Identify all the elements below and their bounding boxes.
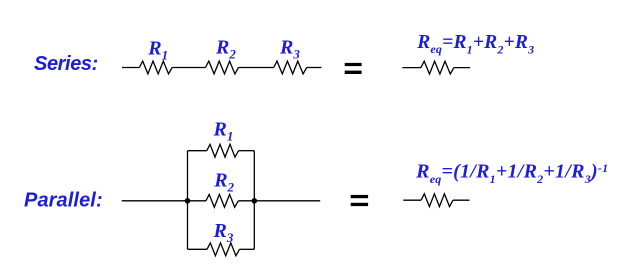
junction node (right) <box>252 198 258 204</box>
wire: bottom rail right segment <box>240 248 255 250</box>
svg-text:R1: R1 <box>147 38 168 63</box>
wire: parallel left lead <box>122 200 188 202</box>
resistor Req (series equivalent) <box>421 61 454 74</box>
wire: series between R2 and R3 <box>239 67 274 69</box>
svg-text:R2: R2 <box>215 37 236 62</box>
svg-text:R1: R1 <box>213 119 234 144</box>
wire: right vertical bus <box>253 151 255 250</box>
wire: parallel Req left lead <box>403 199 421 201</box>
wire: bottom rail left segment <box>188 248 208 250</box>
svg-text:Req=(1/R1+1/R2+1/R3)-1: Req=(1/R1+1/R2+1/R3)-1 <box>415 160 608 186</box>
wire: series Req left lead <box>402 67 421 69</box>
wire: series right lead <box>307 67 322 69</box>
equals sign (series row) <box>345 63 362 74</box>
wire: series left lead <box>122 67 139 69</box>
wire: parallel right lead <box>254 200 320 202</box>
svg-text:Parallel:: Parallel: <box>24 190 103 212</box>
wire: series between R1 and R2 <box>172 67 205 69</box>
resistor R2 (series) <box>206 61 239 74</box>
resistor R3 (series) <box>274 61 307 74</box>
resistor Req (parallel equivalent) <box>421 194 453 207</box>
wire: middle branch right segment <box>238 200 254 202</box>
wire: left vertical bus <box>187 151 189 250</box>
wire: top rail left segment <box>188 150 207 152</box>
svg-text:R2: R2 <box>213 170 234 195</box>
wire: top rail right segment <box>239 150 255 152</box>
resistor R1 (parallel top branch) <box>207 144 239 157</box>
resistor R1 (series) <box>139 61 172 74</box>
svg-text:Req=R1+R2+R3: Req=R1+R2+R3 <box>416 32 534 57</box>
svg-text:Series:: Series: <box>34 53 98 75</box>
wire: series Req right lead <box>454 67 470 69</box>
svg-text:R3: R3 <box>279 37 300 62</box>
equals sign (parallel row) <box>351 195 368 206</box>
wire: middle branch left segment <box>188 200 206 202</box>
resistor R3 (parallel bottom branch) <box>207 243 240 256</box>
svg-text:R3: R3 <box>213 220 234 245</box>
resistor R2 (parallel middle branch) <box>206 194 238 207</box>
wire: parallel Req right lead <box>453 199 470 201</box>
junction node (left) <box>185 198 191 204</box>
